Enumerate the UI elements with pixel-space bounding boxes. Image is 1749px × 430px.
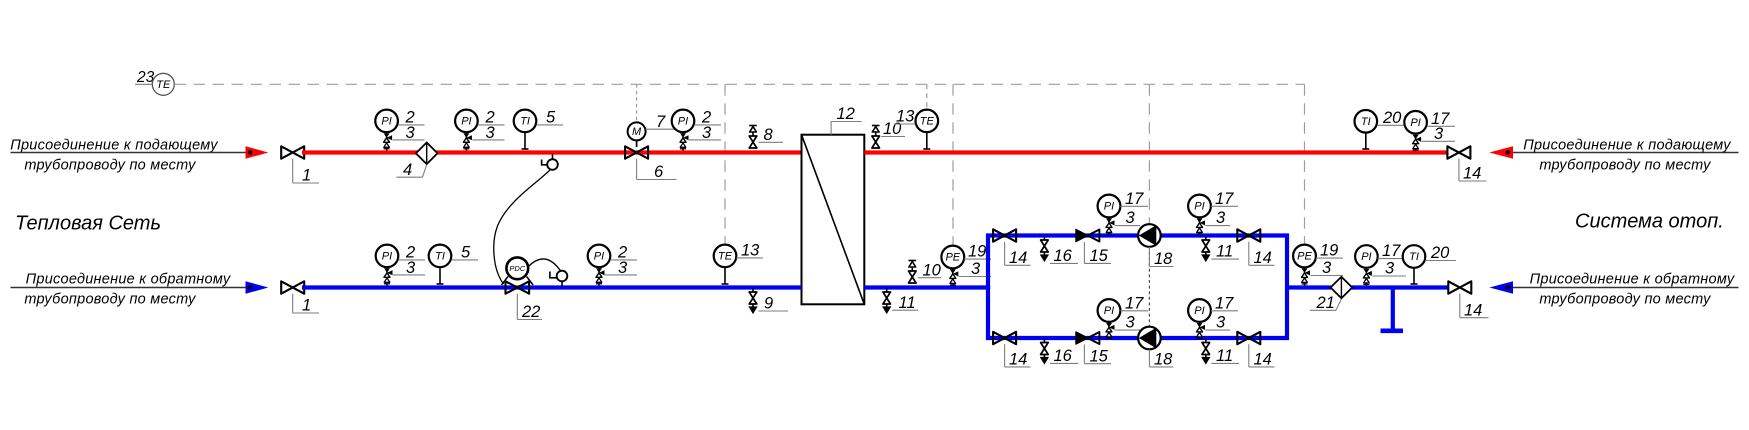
valve 14 (lower pump branch, outlet) [1237, 332, 1274, 369]
svg-text:14: 14 [1463, 165, 1481, 183]
pressure gauge PI with cock, pos 17/3 (return right) [1355, 242, 1406, 285]
svg-text:20: 20 [1382, 109, 1402, 127]
svg-text:3: 3 [1322, 259, 1332, 277]
supply pipe (red) from heat exchanger to valve 14 [864, 150, 1448, 154]
svg-text:3: 3 [971, 260, 981, 278]
svg-text:19: 19 [1320, 242, 1338, 260]
return pipe (blue) from heat exchanger to pump header [864, 285, 990, 289]
svg-text:22: 22 [521, 303, 540, 321]
pressure sensor PE pos 19/3 (left) [941, 243, 991, 286]
return pipe (blue) from pump header to valve 14 [1287, 285, 1448, 289]
svg-text:8: 8 [764, 126, 774, 144]
svg-text:15: 15 [1090, 247, 1109, 265]
svg-text:Присоединение к обратному: Присоединение к обратному [1530, 272, 1735, 288]
svg-text:1: 1 [302, 167, 311, 185]
svg-text:14: 14 [1254, 249, 1272, 267]
impulse line from PDC valve to return tap [528, 259, 560, 271]
strainer 21 on return [1310, 277, 1352, 312]
svg-text:17: 17 [1125, 295, 1144, 313]
svg-text:6: 6 [654, 163, 664, 181]
svg-text:16: 16 [1054, 347, 1073, 365]
svg-text:18: 18 [1154, 250, 1173, 268]
pressure gauge PI with cock, pos 2/3 (supply B) [455, 109, 504, 151]
svg-text:14: 14 [1009, 249, 1027, 267]
valve 14 (upper pump branch, outlet) [1237, 229, 1274, 267]
svg-text:13: 13 [896, 108, 915, 126]
note: connection to return pipe (left) [11, 272, 247, 308]
svg-text:9: 9 [764, 295, 773, 313]
svg-text:3: 3 [406, 124, 416, 142]
svg-text:трубопроводу по месту: трубопроводу по месту [1539, 292, 1711, 308]
svg-text:3: 3 [1216, 314, 1226, 332]
svg-text:3: 3 [702, 124, 712, 142]
drain valve 9 on return [749, 288, 788, 314]
dashed signal drop to PE19 right [1304, 84, 1306, 243]
svg-text:18: 18 [1154, 351, 1173, 369]
circulation pump 18 (upper) [1138, 224, 1173, 268]
check valve 15 (upper pump branch) [1076, 230, 1111, 266]
dashed signal drop to motor valve 6 [636, 84, 638, 121]
return pipe (blue) from valve 1 to heat exchanger [302, 285, 802, 289]
svg-text:17: 17 [1382, 242, 1401, 260]
svg-text:3: 3 [1126, 314, 1136, 332]
pump header pipes (blue loop) [988, 233, 1287, 340]
vent valve 10 on supply [872, 120, 905, 148]
svg-text:PDC: PDC [509, 264, 525, 273]
pressure gauge PI 17/3 (upper branch, after pump) [1188, 190, 1238, 234]
svg-text:Присоединение к подающему: Присоединение к подающему [10, 138, 218, 154]
svg-text:12: 12 [837, 105, 855, 123]
valve 1 on supply [281, 146, 319, 184]
svg-text:трубопроводу по месту: трубопроводу по месту [24, 292, 196, 308]
svg-text:3: 3 [1385, 260, 1395, 278]
pressure sensor PE pos 19/3 (right) [1293, 242, 1343, 286]
svg-text:16: 16 [1054, 247, 1073, 265]
return flow arrow (left, pointing right) [246, 281, 269, 294]
svg-text:19: 19 [968, 243, 986, 261]
svg-text:TE: TE [718, 251, 733, 263]
svg-text:PI: PI [1104, 305, 1114, 317]
impulse line from supply tap down to PDC valve 22 [494, 169, 551, 284]
svg-text:трубопроводу по месту: трубопроводу по месту [1539, 158, 1711, 174]
svg-text:21: 21 [1316, 294, 1335, 312]
drain valve 16 (upper pump branch) [1041, 236, 1078, 266]
svg-text:TE: TE [920, 116, 935, 128]
svg-text:Тепловая Сеть: Тепловая Сеть [15, 213, 161, 235]
svg-text:17: 17 [1215, 190, 1234, 208]
dashed signal drop to TE13 on supply [926, 84, 928, 109]
svg-text:11: 11 [1216, 243, 1233, 261]
svg-text:PI: PI [1194, 305, 1204, 317]
svg-text:14: 14 [1254, 351, 1272, 369]
svg-text:10: 10 [923, 261, 942, 279]
svg-text:PI: PI [594, 251, 604, 263]
svg-text:PI: PI [1194, 201, 1204, 213]
svg-text:M: M [632, 126, 642, 138]
svg-text:PE: PE [945, 252, 960, 264]
svg-text:PI: PI [382, 251, 392, 263]
svg-text:4: 4 [403, 161, 412, 179]
svg-text:PI: PI [381, 116, 391, 128]
svg-text:TI: TI [1409, 251, 1419, 263]
svg-text:PI: PI [461, 116, 471, 128]
svg-text:TI: TI [435, 251, 445, 263]
svg-text:11: 11 [1216, 347, 1233, 365]
svg-text:TI: TI [520, 116, 530, 128]
svg-text:3: 3 [618, 259, 628, 277]
drain valve 11 on return (after HX) [883, 288, 918, 314]
svg-text:14: 14 [1464, 301, 1482, 319]
thermometer TI pos 20 (supply right) [1355, 109, 1409, 149]
pressure gauge PI 17/3 (upper branch, before pump) [1098, 190, 1148, 234]
thermometer TI pos 5 (return) [429, 244, 478, 285]
svg-text:PI: PI [1361, 251, 1371, 263]
heat exchanger 12 [802, 105, 865, 304]
dashed boundary drop to TE13 on return [724, 84, 726, 244]
pressure gauge PI with cock, pos 2/3 (return B) [588, 244, 637, 286]
svg-text:20: 20 [1430, 244, 1450, 262]
svg-text:TE: TE [156, 79, 171, 91]
pressure gauge PI 17/3 (lower branch, before pump) [1098, 295, 1148, 339]
supply flow arrow (left, pointing right) [246, 146, 269, 159]
svg-text:13: 13 [741, 242, 760, 260]
svg-text:3: 3 [406, 259, 416, 277]
note: connection to return pipe (right) [1513, 272, 1739, 308]
vent valve 8 on supply [749, 126, 783, 149]
pressure gauge PI with cock, pos 2/3 (return A) [376, 244, 425, 286]
svg-text:Система отоп.: Система отоп. [1575, 211, 1724, 233]
valve 1 on return [281, 281, 319, 314]
temperature sensor TE pos 13 on supply [894, 108, 938, 150]
instrument TE23 (outdoor temperature sensor) with label 23 [135, 69, 174, 96]
svg-text:Присоединение к подающему: Присоединение к подающему [1523, 138, 1731, 154]
pressure controller valve 22 with PDC actuator [502, 257, 543, 321]
svg-text:PE: PE [1297, 251, 1312, 263]
svg-text:PI: PI [678, 116, 688, 128]
drain valve 11 (upper pump branch) [1202, 236, 1239, 262]
make-up / drain stub with blind flange on return [1391, 289, 1395, 329]
valve 14 on supply (right) [1447, 146, 1486, 182]
svg-text:7: 7 [656, 113, 666, 131]
svg-text:5: 5 [546, 109, 556, 127]
supply flow arrow (right, pointing left) [1489, 146, 1513, 159]
svg-text:3: 3 [1216, 209, 1226, 227]
valve 14 on return (right) [1448, 281, 1488, 319]
temperature sensor TE pos 13 on return [714, 242, 763, 285]
svg-text:трубопроводу по месту: трубопроводу по месту [24, 158, 196, 174]
supply pipe (red) from valve 1 to heat exchanger [302, 150, 802, 154]
note: connection to supply pipe (left) [10, 138, 246, 174]
drain valve 16 (lower pump branch) [1041, 338, 1078, 365]
circulation pump 18 (lower) [1138, 327, 1173, 369]
svg-text:1: 1 [302, 297, 311, 315]
svg-text:5: 5 [461, 244, 471, 262]
pressure gauge PI with cock, pos 2/3 (supply C) [672, 109, 721, 151]
dashed signal drop to pumps 18 [1148, 84, 1150, 224]
svg-text:15: 15 [1090, 347, 1109, 365]
motor control valve 6 with actuator M, pos 7 [625, 113, 677, 181]
dashed signal trunk line from TE23 [175, 83, 1305, 85]
pressure gauge PI with cock, pos 2/3 (supply A) [375, 109, 424, 151]
note: connection to supply pipe (right) [1513, 138, 1739, 174]
thermometer TI pos 5 (supply) [514, 109, 563, 150]
valve 14 (upper pump branch, inlet) [993, 229, 1030, 267]
vent valve 10 on return [909, 261, 942, 284]
svg-text:Присоединение к обратному: Присоединение к обратному [26, 272, 231, 288]
strainer 4 on supply [396, 143, 437, 179]
pressure gauge PI 17/3 (lower branch, after pump) [1188, 295, 1238, 339]
svg-text:PI: PI [1410, 117, 1420, 129]
pressure gauge PI with cock, pos 17/3 (supply right) [1404, 110, 1455, 151]
svg-text:17: 17 [1125, 190, 1144, 208]
check valve 15 (lower pump branch) [1076, 332, 1111, 365]
svg-text:PI: PI [1104, 201, 1114, 213]
svg-text:3: 3 [1434, 125, 1444, 143]
thermometer TI pos 20 (return right) [1403, 244, 1456, 284]
return flow arrow (right, pointing left) [1489, 281, 1513, 294]
valve 14 (lower pump branch, inlet) [993, 332, 1030, 369]
svg-text:17: 17 [1215, 295, 1234, 313]
dashed boundary drop to PE19 left [952, 84, 954, 245]
svg-text:TI: TI [1361, 116, 1371, 128]
svg-text:11: 11 [899, 294, 916, 312]
pressure tap on supply for PDC controller [542, 154, 558, 170]
svg-text:3: 3 [1126, 209, 1136, 227]
svg-text:14: 14 [1009, 351, 1027, 369]
drain valve 11 (lower pump branch) [1202, 338, 1239, 365]
pressure tap on return for PDC controller [550, 271, 567, 286]
svg-text:3: 3 [486, 124, 496, 142]
